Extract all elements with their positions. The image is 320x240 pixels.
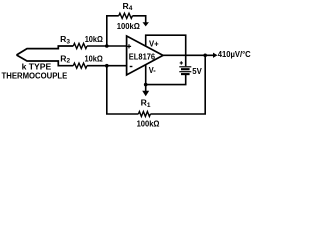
op-amp + input symbol bbox=[127, 44, 131, 48]
output arrowhead bbox=[213, 53, 218, 58]
ground arrow below V- node bbox=[145, 85, 147, 92]
thermocouple lower lead wire bbox=[17, 55, 74, 66]
wire R2 to op-amp inverting input bbox=[87, 65, 127, 67]
svg-text:410µV/°C: 410µV/°C bbox=[218, 50, 251, 59]
svg-text:EL8176: EL8176 bbox=[129, 51, 155, 61]
thermocouple upper lead wire bbox=[17, 46, 74, 55]
resistor R2 bbox=[73, 63, 87, 68]
node output junction bbox=[203, 54, 207, 58]
wire op-amp output bbox=[163, 54, 213, 56]
resistor R4 bbox=[119, 13, 133, 18]
wire R3 to op-amp non-inverting input bbox=[87, 45, 127, 47]
svg-text:THERMOCOUPLE: THERMOCOUPLE bbox=[2, 71, 68, 81]
ground arrow at R4 bbox=[143, 22, 149, 26]
svg-text:V-: V- bbox=[149, 65, 156, 75]
node junction R3/R4 bbox=[105, 44, 109, 48]
svg-text:100kΩ: 100kΩ bbox=[117, 21, 140, 31]
battery B1 plate long (+) bbox=[179, 66, 191, 68]
svg-text:5V: 5V bbox=[192, 66, 202, 76]
wire V+ pin to battery positive bbox=[146, 35, 186, 66]
wire feedback loop right and bottom bbox=[107, 55, 205, 114]
node junction R2/feedback bbox=[105, 64, 109, 68]
wire R4 to ground arrow bbox=[132, 16, 145, 23]
wire V- pin down to ground node and battery negative bbox=[146, 65, 186, 85]
battery B1 plate short (-) bbox=[181, 73, 190, 75]
op-amp - input symbol bbox=[130, 66, 133, 68]
node junction V- / ground bbox=[144, 83, 148, 87]
svg-text:10kΩ: 10kΩ bbox=[85, 53, 103, 63]
resistor R3 bbox=[73, 43, 87, 48]
svg-text:10kΩ: 10kΩ bbox=[85, 34, 103, 44]
svg-text:V+: V+ bbox=[149, 39, 159, 49]
resistor R1 bbox=[138, 112, 150, 117]
label battery + bbox=[180, 61, 183, 64]
battery B1 plate long bbox=[179, 71, 191, 73]
svg-text:100kΩ: 100kΩ bbox=[137, 119, 160, 129]
op-amp U1 EL8176 bbox=[127, 36, 163, 75]
battery B1 plate short bbox=[181, 68, 190, 70]
wire up to R4 from non-inverting node bbox=[107, 16, 119, 46]
